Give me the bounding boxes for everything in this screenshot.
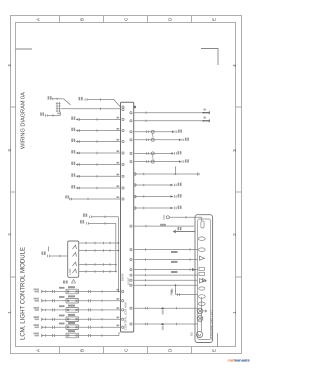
wire right row y=196.5 bbox=[134, 196, 174, 198]
wire row 1b diagonal into pin bbox=[114, 100, 121, 108]
svg-text:1: 1 bbox=[7, 311, 12, 314]
wire to vertical bus row y=216.8 bbox=[83, 214, 87, 217]
wire right row y=280.2 to right box bbox=[134, 279, 198, 281]
wire right bottom row y=324.0 to right box bbox=[134, 323, 198, 325]
right lamp unit outer box bbox=[195, 215, 213, 343]
svg-text:4: 4 bbox=[232, 64, 237, 67]
vertical bus wire x=115.8 bbox=[115, 223, 117, 271]
module pin left y=176.3 bbox=[122, 175, 124, 177]
module pin bottom y=300.7 bbox=[122, 300, 124, 302]
svg-text:GE: GE bbox=[190, 332, 194, 336]
twisted pair symbol bbox=[56, 102, 58, 112]
module pin bottom y=291.5 bbox=[122, 290, 124, 292]
vertical bus wire x=118.4 bbox=[117, 217, 119, 292]
svg-text:B: B bbox=[79, 349, 84, 352]
svg-text:4: 4 bbox=[7, 64, 12, 67]
module pin bottom y=309.9 bbox=[122, 309, 124, 311]
svg-text:E: E bbox=[211, 349, 216, 352]
wire left row y=153 bbox=[71, 150, 75, 153]
wire row 1a bbox=[48, 96, 52, 99]
wire bottom-left row y=319.2 bbox=[34, 316, 40, 318]
wire right row y=259.5 to right box bbox=[134, 259, 198, 261]
border outer frame bbox=[11, 16, 242, 354]
wire left row y=141.5 bbox=[71, 139, 75, 142]
branch connector to box y=294.6 bbox=[177, 293, 179, 296]
svg-text:2: 2 bbox=[232, 233, 237, 236]
branch vertical x=175.5 bbox=[175, 285, 177, 294]
connector block row y=319.2 bbox=[66, 317, 79, 322]
module lamp pin y=196.5 bbox=[134, 195, 137, 198]
connector block row y=291.5 bbox=[66, 289, 79, 294]
wire row 1c bbox=[40, 112, 44, 115]
module lamp pin y=208 bbox=[134, 207, 137, 210]
right lamp unit inner strip bbox=[198, 219, 211, 340]
module pin left y=130.6 bbox=[122, 130, 124, 132]
wire right row y=120.8 long bbox=[134, 120, 204, 122]
module pin left y=141.5 bbox=[122, 140, 124, 142]
wire right row y=226.1 to right box bbox=[134, 225, 195, 227]
wire row 1a diagonal bbox=[64, 99, 71, 105]
registration mark top-left bbox=[16, 48, 33, 50]
wire bottom row 6 riser bbox=[118, 332, 120, 336]
svg-text:3: 3 bbox=[232, 149, 237, 152]
wire right row y=174 with branch bbox=[134, 173, 200, 175]
wire bottom-left row y=291.5 bbox=[34, 289, 40, 291]
wire row 2 bbox=[61, 108, 121, 110]
wire left row y=119.4 bbox=[71, 117, 75, 120]
switch designator 3/1 bbox=[63, 281, 68, 284]
right unit internal vertical wire bbox=[201, 297, 203, 331]
svg-text:3: 3 bbox=[7, 149, 12, 152]
headlamp switch 3/1 box bbox=[68, 241, 79, 277]
control module 4/58 box bbox=[121, 102, 134, 332]
wire left row y=188 bbox=[71, 185, 75, 188]
motor symbol bbox=[196, 331, 202, 337]
module pin left y=153 bbox=[122, 152, 124, 154]
wire left row y=130.6 bbox=[71, 128, 75, 131]
svg-text:M: M bbox=[198, 332, 201, 337]
svg-text:E: E bbox=[211, 18, 216, 21]
wire right row y=249.6 to right box bbox=[134, 249, 198, 251]
wire label under row 285 bbox=[171, 290, 173, 296]
wire bottom-left row y=309.9 bbox=[34, 307, 40, 309]
registration mark top-right corner bbox=[201, 49, 218, 66]
wire right row y=161.6 with inline connector bbox=[134, 161, 180, 163]
svg-text:HEADLAMP UNIT LEFT: HEADLAMP UNIT LEFT bbox=[209, 310, 213, 340]
grid ticks right bbox=[236, 106, 242, 108]
wire left row y=164.5 bbox=[71, 162, 75, 165]
module top-right termination nub bbox=[134, 106, 136, 108]
svg-text:LJUS: LJUS bbox=[68, 268, 72, 275]
svg-text:B: B bbox=[79, 18, 84, 21]
wire right row y=131.7 with inline connector bbox=[134, 131, 173, 133]
arrow head wire y=270.3 bbox=[192, 268, 196, 271]
right unit pin ovals bbox=[198, 237, 205, 241]
module pin left y=164.5 bbox=[122, 163, 124, 165]
right unit triangle contact bbox=[200, 279, 205, 283]
bulb symbol 1 bbox=[197, 308, 203, 314]
wire right bottom row y=308.2 to right box bbox=[134, 307, 198, 309]
module pin bottom y=319.2 bbox=[122, 318, 124, 320]
bulb symbol 2 bbox=[197, 316, 203, 322]
wire right row y=285.2 to right box bbox=[134, 284, 198, 286]
connector block row y=309.9 bbox=[66, 308, 79, 313]
svg-text:CENTRAL LCM 4/58: CENTRAL LCM 4/58 bbox=[124, 302, 128, 330]
right unit small oval bbox=[199, 287, 205, 290]
wire right row y=112.7 long bbox=[134, 112, 204, 114]
connector block row y=327.2 bbox=[66, 325, 79, 330]
switch output wires bbox=[79, 242, 119, 244]
switch feed wire bbox=[42, 252, 46, 255]
twisted link between connector pairs bbox=[151, 133, 154, 138]
connector block row y=335.5 bbox=[66, 333, 79, 338]
right unit pin rects bbox=[199, 267, 204, 270]
wire right row y=269.6 to right box bbox=[134, 269, 198, 271]
grid ticks top bbox=[59, 16, 61, 23]
wire bottom-left row y=300.7 bbox=[34, 298, 40, 300]
bottom-right partition line bbox=[217, 333, 219, 347]
wire bottom-left row y=335.5 bbox=[34, 333, 40, 335]
grid ticks left bbox=[11, 106, 16, 108]
border inner frame bbox=[16, 23, 236, 347]
wire row 1b bbox=[79, 97, 83, 100]
svg-text:BEAM: BEAM bbox=[121, 274, 125, 281]
wire right row y=185 bbox=[134, 184, 174, 186]
module pin circles rows 1-2 bbox=[122, 106, 124, 108]
module pin left y=188 bbox=[122, 187, 124, 189]
shield label bbox=[57, 113, 60, 115]
svg-text:1: 1 bbox=[232, 311, 237, 314]
module lamp pin y=185 bbox=[134, 184, 137, 187]
wire stub row y=231.5 with arrow bbox=[174, 230, 196, 233]
svg-text:2: 2 bbox=[7, 233, 12, 236]
switch stub label bbox=[48, 247, 50, 252]
grid ticks bottom bbox=[59, 347, 61, 354]
right unit vertical pin oval bbox=[201, 221, 204, 228]
elbow into vertical pin oval bbox=[201, 217, 203, 221]
wire right row y=153.4 with inline connector bbox=[134, 152, 172, 154]
connector block row y=300.7 bbox=[66, 298, 79, 303]
wire to vertical bus row y=223.4 bbox=[80, 220, 84, 223]
svg-text:WIRING DIAGRAM 0A: WIRING DIAGRAM 0A bbox=[21, 92, 27, 149]
wire right row y=217.3 from stub to right box bbox=[163, 215, 165, 220]
module pin bottom y=327.2 bbox=[122, 326, 124, 328]
svg-text:carmanuals: carmanuals bbox=[228, 357, 251, 362]
wire bottom-left row y=327.2 bbox=[34, 324, 40, 326]
wire right row y=208 bbox=[134, 207, 174, 209]
module pin left y=119.4 bbox=[122, 118, 124, 120]
wire left short row y=199 bbox=[65, 195, 69, 198]
wire left row y=176.3 bbox=[71, 173, 75, 176]
wire row 1c riser bbox=[59, 112, 61, 116]
diode symbol wire y=278.4 bbox=[203, 278, 207, 282]
wire right row y=275.1 to right box bbox=[134, 274, 198, 276]
bottom cluster small labels bbox=[59, 287, 65, 289]
svg-text:LCM, LIGHT CONTROL MODULE: LCM, LIGHT CONTROL MODULE bbox=[20, 247, 27, 340]
switch contacts bbox=[73, 245, 77, 249]
wire right row y=139.8 with inline connector bbox=[134, 139, 180, 141]
right unit arrow contact bbox=[200, 256, 205, 260]
